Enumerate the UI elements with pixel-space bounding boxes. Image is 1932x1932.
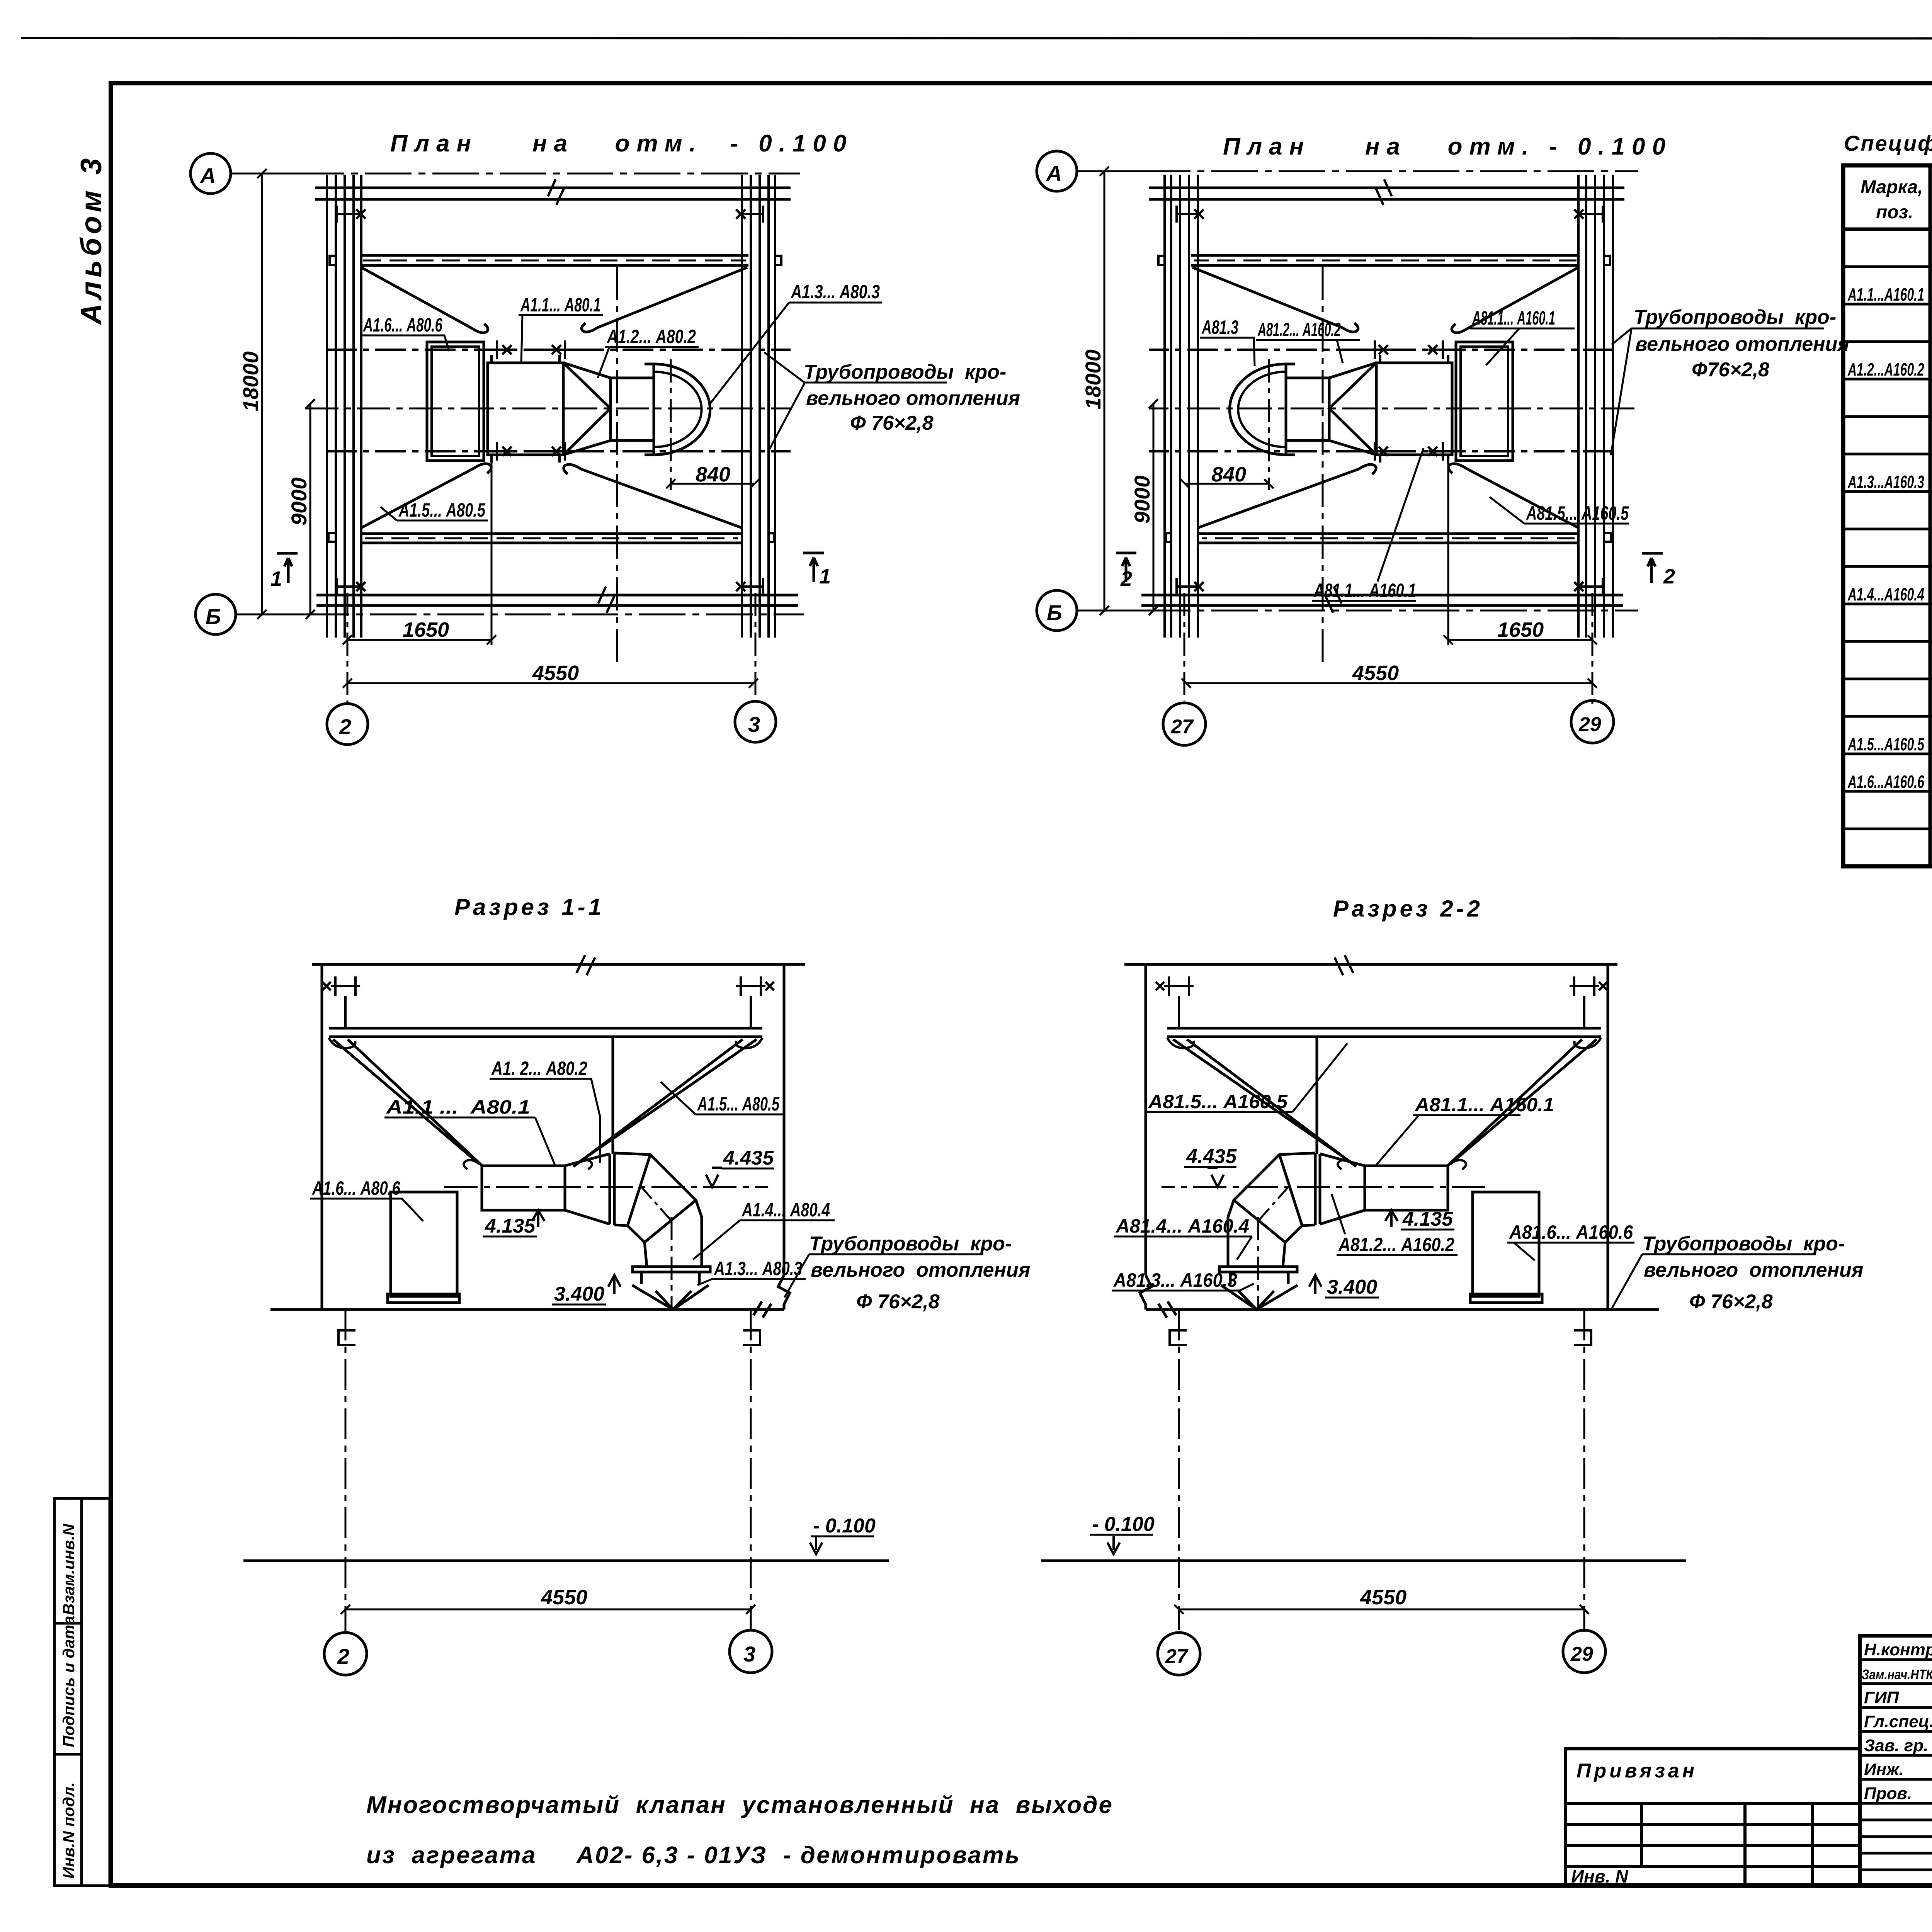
svg-text:- 0.100: - 0.100 xyxy=(813,1515,876,1537)
svg-text:1650: 1650 xyxy=(1497,618,1544,641)
svg-text:А1.3...А160.3: А1.3...А160.3 xyxy=(1847,472,1924,492)
svg-text:Б: Б xyxy=(1047,600,1062,625)
svg-text:А81.2... А160.2: А81.2... А160.2 xyxy=(1257,319,1341,340)
svg-text:А1.6... А80.6: А1.6... А80.6 xyxy=(311,1177,400,1199)
svg-text:поз.: поз. xyxy=(1876,202,1913,223)
spec table grid xyxy=(1843,165,1932,866)
svg-text:вельного отопления: вельного отопления xyxy=(1635,333,1849,355)
svg-text:9000: 9000 xyxy=(287,477,311,526)
svg-text:Инв. N: Инв. N xyxy=(1571,1866,1628,1886)
svg-text:А81.2... А160.2: А81.2... А160.2 xyxy=(1338,1234,1454,1255)
svg-text:А1.1 ... А80.1: А1.1 ... А80.1 xyxy=(386,1096,530,1118)
svg-text:Подпись и дата: Подпись и дата xyxy=(60,1616,78,1747)
svg-text:3.400: 3.400 xyxy=(554,1283,604,1305)
svg-text:1: 1 xyxy=(270,567,282,590)
svg-text:План на отм. - 0.100: План на отм. - 0.100 xyxy=(1223,133,1672,160)
grid bubble 3 s1 xyxy=(730,1630,772,1673)
svg-text:4.435: 4.435 xyxy=(723,1147,774,1169)
dim 9000 plan1 xyxy=(306,399,315,619)
svg-text:А: А xyxy=(1046,161,1062,185)
svg-text:А81.1... А160.1: А81.1... А160.1 xyxy=(1414,1094,1554,1116)
svg-text:840: 840 xyxy=(1211,463,1246,486)
signature table rows xyxy=(1860,1660,1932,1870)
svg-text:4.135: 4.135 xyxy=(485,1215,536,1237)
svg-text:А1.1... А80.1: А1.1... А80.1 xyxy=(520,294,601,316)
svg-text:27: 27 xyxy=(1170,716,1194,738)
dim 9000 plan2 xyxy=(1149,399,1158,615)
svg-text:вельного отопления: вельного отопления xyxy=(806,387,1020,410)
svg-text:А1.1...А160.1: А1.1...А160.1 xyxy=(1847,284,1924,304)
svg-text:3.400: 3.400 xyxy=(1327,1276,1377,1298)
svg-text:Пров.: Пров. xyxy=(1864,1784,1912,1803)
svg-text:А1.2...А160.2: А1.2...А160.2 xyxy=(1847,359,1924,379)
svg-text:Разрез 1-1: Разрез 1-1 xyxy=(454,894,604,920)
svg-text:ГИП: ГИП xyxy=(1864,1688,1900,1707)
svg-text:А81.6... А160.6: А81.6... А160.6 xyxy=(1509,1221,1633,1243)
grid bubble B plan1 xyxy=(196,594,236,634)
svg-text:4550: 4550 xyxy=(541,1586,587,1609)
svg-text:А81.1... А160.1: А81.1... А160.1 xyxy=(1472,307,1555,329)
section 2-2 drawing geometry xyxy=(1041,955,1686,1632)
spec table header texts xyxy=(1861,175,1932,223)
svg-text:- 0.100: - 0.100 xyxy=(1092,1513,1155,1536)
svg-text:2: 2 xyxy=(339,714,351,739)
svg-text:1650: 1650 xyxy=(403,618,449,641)
svg-text:Ф76×2,8: Ф76×2,8 xyxy=(1692,359,1769,381)
svg-text:Трубопроводы кро-: Трубопроводы кро- xyxy=(1642,1233,1845,1255)
svg-text:А1.5... А80.5: А1.5... А80.5 xyxy=(697,1093,780,1115)
spec table body column 1 xyxy=(1847,284,1925,792)
svg-text:2: 2 xyxy=(1120,567,1132,590)
svg-text:Б: Б xyxy=(206,604,221,629)
svg-text:Ф 76×2,8: Ф 76×2,8 xyxy=(850,412,934,434)
svg-text:А1.3... А80.3: А1.3... А80.3 xyxy=(713,1258,802,1279)
svg-text:Гл.спец.: Гл.спец. xyxy=(1864,1712,1932,1731)
grid bubble 3 xyxy=(735,701,776,742)
svg-text:А1.3... А80.3: А1.3... А80.3 xyxy=(790,281,880,303)
svg-text:Зав. гр.: Зав. гр. xyxy=(1864,1736,1928,1755)
svg-text:Трубопроводы кро-: Трубопроводы кро- xyxy=(804,361,1006,383)
svg-text:А1.4... А80.4: А1.4... А80.4 xyxy=(741,1199,830,1221)
svg-text:вельного отопления: вельного отопления xyxy=(811,1259,1030,1281)
svg-text:4.435: 4.435 xyxy=(1186,1145,1237,1168)
svg-text:Трубопроводы кро-: Трубопроводы кро- xyxy=(809,1233,1012,1255)
title block outline xyxy=(1860,1636,1932,1886)
svg-text:Трубопроводы кро-: Трубопроводы кро- xyxy=(1634,306,1836,328)
svg-text:27: 27 xyxy=(1165,1645,1189,1668)
svg-text:29: 29 xyxy=(1570,1643,1593,1665)
svg-text:А1. 2... А80.2: А1. 2... А80.2 xyxy=(491,1058,587,1079)
svg-text:3: 3 xyxy=(743,1642,755,1666)
svg-text:А1.6... А80.6: А1.6... А80.6 xyxy=(363,314,443,336)
svg-text:Ф 76×2,8: Ф 76×2,8 xyxy=(856,1291,940,1313)
svg-text:Марка,: Марка, xyxy=(1861,177,1923,197)
svg-text:А1.2... А80.2: А1.2... А80.2 xyxy=(606,326,696,347)
svg-text:1: 1 xyxy=(819,565,831,588)
grid bubble 2 xyxy=(327,704,368,745)
svg-text:А81.3: А81.3 xyxy=(1201,316,1239,338)
svg-text:вельного отопления: вельного отопления xyxy=(1644,1259,1863,1281)
svg-text:из агрегата А02- 6,3 - 01: из агрегата А02- 6,3 - 01УЗ - демонтиров… xyxy=(366,1842,1019,1869)
svg-text:4550: 4550 xyxy=(532,662,579,685)
svg-text:А1.4...А160.4: А1.4...А160.4 xyxy=(1847,584,1924,604)
svg-text:2: 2 xyxy=(337,1644,349,1668)
svg-text:9000: 9000 xyxy=(1130,475,1154,524)
top thin border line xyxy=(21,38,1932,39)
dim 18000 plan1 xyxy=(231,169,320,619)
svg-text:29: 29 xyxy=(1578,713,1601,736)
svg-text:Альбом 3: Альбом 3 xyxy=(75,155,108,325)
svg-text:Разрез 2-2: Разрез 2-2 xyxy=(1333,896,1483,922)
svg-text:4.135: 4.135 xyxy=(1402,1208,1453,1230)
binding table xyxy=(1565,1749,1860,1886)
svg-text:А: А xyxy=(199,163,216,188)
grid bubble 27 s2 xyxy=(1158,1633,1200,1675)
TITLE BLOCK xyxy=(1860,1636,1932,1886)
svg-text:А1.5...А160.5: А1.5...А160.5 xyxy=(1847,734,1925,754)
svg-text:План на отм. - 0.100: План на отм. - 0.100 xyxy=(390,130,853,157)
svg-text:Инж.: Инж. xyxy=(1864,1760,1904,1779)
svg-text:Спецификация отопительно - ве: Спецификация отопительно - вентиляционны… xyxy=(1844,131,1932,155)
signature table role names xyxy=(1862,1640,1932,1803)
grid bubble A plan2 xyxy=(1037,151,1077,191)
left binding sidebar boxes xyxy=(54,1498,110,1886)
svg-text:Многостворчатый клапан устан: Многостворчатый клапан установленный на … xyxy=(366,1792,1112,1818)
plan 2 drawing geometry xyxy=(1116,175,1663,704)
svg-text:Ф 76×2,8: Ф 76×2,8 xyxy=(1689,1291,1773,1313)
section 1-1 drawing geometry xyxy=(243,955,889,1632)
svg-text:18000: 18000 xyxy=(238,351,263,412)
grid bubble 29 xyxy=(1571,701,1614,743)
svg-text:Н.контр.: Н.контр. xyxy=(1864,1640,1932,1659)
svg-text:4550: 4550 xyxy=(1352,662,1399,685)
dim 18000 plan2 xyxy=(1077,167,1162,615)
grid bubble B plan2 xyxy=(1037,590,1077,631)
svg-text:18000: 18000 xyxy=(1081,349,1105,410)
svg-text:А1.5... А80.5: А1.5... А80.5 xyxy=(398,499,485,521)
svg-text:А81.4... А160.4: А81.4... А160.4 xyxy=(1115,1215,1249,1237)
svg-text:А81.5... А160.5: А81.5... А160.5 xyxy=(1148,1091,1288,1112)
plan 1 drawing geometry xyxy=(277,175,824,704)
svg-text:Зам.нач.НТК: Зам.нач.НТК xyxy=(1862,1667,1932,1682)
svg-text:Привязан: Привязан xyxy=(1577,1760,1697,1782)
svg-text:А81.3... А160.3: А81.3... А160.3 xyxy=(1113,1269,1237,1291)
svg-text:840: 840 xyxy=(696,463,730,486)
svg-text:Инв.N подл.: Инв.N подл. xyxy=(60,1782,78,1879)
grid bubble A plan1 xyxy=(190,153,231,194)
svg-text:А81.5... А160.5: А81.5... А160.5 xyxy=(1526,502,1629,524)
svg-text:А81.1... А160.1: А81.1... А160.1 xyxy=(1313,580,1416,601)
svg-text:Взам.инв.N: Взам.инв.N xyxy=(60,1523,78,1615)
svg-text:А1.6...А160.6: А1.6...А160.6 xyxy=(1847,772,1924,792)
svg-text:4550: 4550 xyxy=(1360,1586,1406,1609)
svg-text:2: 2 xyxy=(1663,565,1675,588)
svg-text:3: 3 xyxy=(748,712,760,736)
grid bubble 2 s1 xyxy=(324,1633,367,1675)
grid bubble 27 xyxy=(1163,703,1206,745)
grid bubble 29 s2 xyxy=(1563,1630,1605,1673)
